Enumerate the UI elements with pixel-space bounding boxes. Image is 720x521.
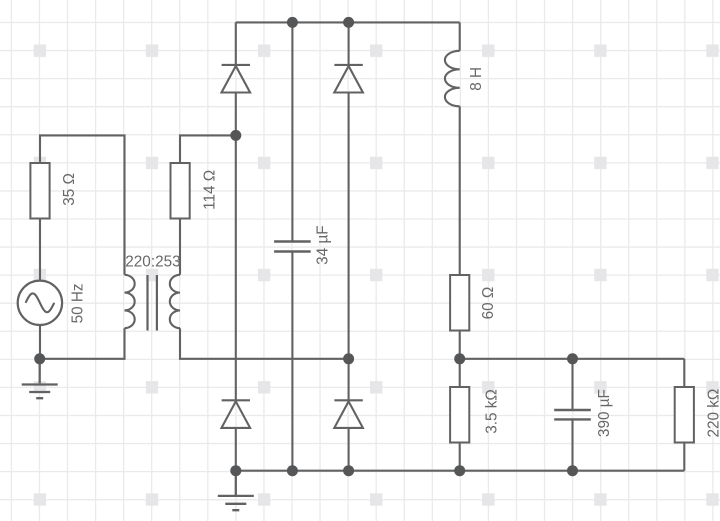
svg-text:220:253: 220:253 [125,254,180,271]
wire top bus [236,21,460,23]
inductor 8 H [445,51,460,107]
svg-text:220 kΩ: 220 kΩ [706,389,720,438]
transformer T1 secondary winding [170,275,180,328]
wire D1 anode column [235,22,237,135]
wire primary bottom to ground node [40,328,125,359]
wire top bus right corner to inductor [459,22,461,50]
ground (bridge) [218,471,254,511]
resistor 3.5 kΩ [450,387,469,443]
node dot top bus 2 [343,17,354,28]
wire R2 top to node A [180,135,236,163]
svg-text:60 Ω: 60 Ω [480,287,497,320]
svg-text:114 Ω: 114 Ω [202,170,219,210]
wire primary top: R1 top to transformer primary top [40,135,125,274]
resistor 220 kΩ [675,387,694,443]
wire bottom bus [236,470,685,472]
svg-text:50 Hz: 50 Hz [69,283,86,323]
diode D4 [334,400,363,428]
node dot bottom bus C1 [287,465,298,476]
transformer core [148,275,157,331]
ground (source) [22,359,58,398]
node A dot [230,130,241,141]
wire D3 to bottom bus [235,428,237,471]
node dot mid bus C2 [567,353,578,364]
node dot bottom bus R4 [454,465,465,476]
resistor 35 Ω [30,163,49,219]
svg-text:35 Ω: 35 Ω [61,173,78,206]
node dot top bus 1 [287,17,298,28]
wire D4 to bottom bus [348,428,350,471]
wire C1 bottom to bottom bus [291,252,293,471]
svg-text:34 µF: 34 µF [314,225,331,264]
capacitor 34 µF [274,242,311,252]
svg-text:3.5 kΩ: 3.5 kΩ [483,389,500,434]
node C dot [454,353,465,364]
wire capacitor C1 column top [291,22,293,241]
wire mid bus [460,358,685,360]
node dot source ground [34,353,45,364]
wire mid bus corner to R5 [683,359,685,387]
svg-text:8 H: 8 H [468,67,485,91]
wire secondary top to R2 bottom [179,219,181,275]
wire R5 bottom to bottom bus corner [683,443,685,471]
transformer T1 primary winding [125,275,135,328]
wire R1 bottom to source top [39,219,41,281]
diode D3 [222,400,251,428]
resistor 60 Ω [450,275,469,331]
wire R4 bottom to bottom bus [459,443,461,471]
ac source 50 Hz [18,281,62,325]
wire source bottom to ground node [39,325,41,359]
node dot bottom bus D4 [343,465,354,476]
wire C2 column top [571,359,573,410]
wire R3 bottom to node C [459,331,461,359]
diode D2 [334,65,363,93]
svg-text:390 µF: 390 µF [596,389,613,437]
wire inductor to R3 [459,106,461,275]
resistor 114 Ω [171,163,190,219]
node dot bottom bus C2 [567,465,578,476]
capacitor 390 µF [554,410,591,419]
node B dot [343,353,354,364]
wire node A down to D3 (crossing) [235,135,237,400]
wire node C to R4 [459,359,461,387]
wire C2 bottom to bottom bus [571,419,573,470]
wire D2 column top [348,22,350,400]
diode D1 [222,65,251,93]
wire secondary bottom to node B [180,328,349,359]
node dot bottom bus ground [230,465,241,476]
